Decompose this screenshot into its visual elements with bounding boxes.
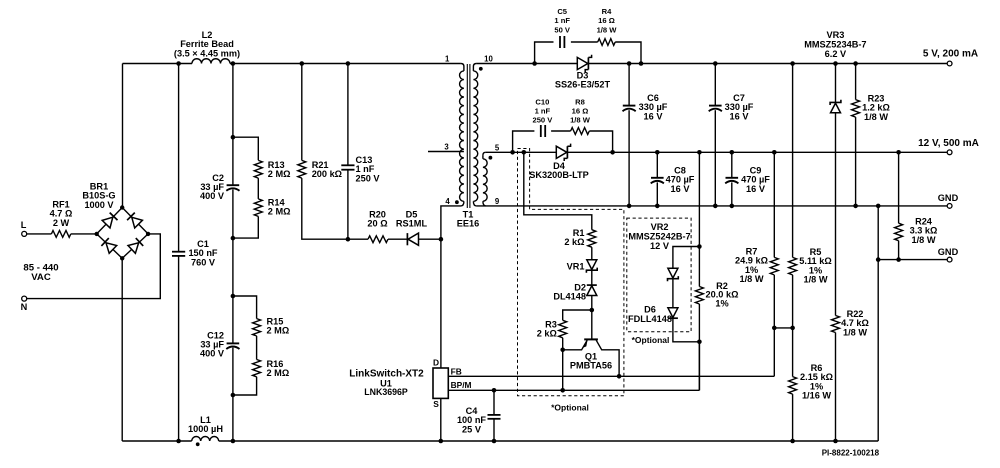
- resistor R7: [773, 152, 775, 257]
- capacitor C6: [628, 64, 630, 106]
- transistor Q1 PMBTA56: [584, 338, 598, 340]
- wire: transformer pin4 to drain node: [441, 206, 459, 239]
- svg-text:1/16 W: 1/16 W: [802, 391, 831, 401]
- terminal 12V: [947, 150, 952, 155]
- diode D3: [577, 57, 588, 69]
- wire R1 to VR1: [591, 247, 593, 260]
- wire D5 to drain node: [419, 238, 441, 240]
- svg-text:1%: 1%: [715, 298, 728, 308]
- svg-text:10: 10: [484, 55, 493, 64]
- svg-text:S: S: [433, 399, 439, 409]
- wire D2 to base node: [591, 296, 593, 340]
- resistor R8: [571, 128, 590, 135]
- resistor R6: [789, 377, 797, 395]
- svg-text:2 kΩ: 2 kΩ: [564, 237, 584, 247]
- svg-text:GND: GND: [938, 247, 959, 257]
- transformer T1 primary winding: [461, 64, 464, 67]
- wire: 5V output rail: [476, 63, 577, 65]
- wire: N to bridge: [27, 234, 161, 299]
- wire: bottom rail: [122, 440, 192, 442]
- svg-text:1/8 W: 1/8 W: [597, 25, 618, 34]
- wire VR2 to D6: [672, 279, 674, 308]
- svg-text:EE16: EE16: [457, 219, 479, 229]
- resistor R16: [256, 336, 258, 360]
- svg-text:VAC: VAC: [31, 272, 51, 283]
- svg-text:L: L: [21, 220, 27, 230]
- wire VR1 to D2: [591, 271, 593, 285]
- svg-text:VR1: VR1: [567, 262, 585, 272]
- svg-text:5: 5: [495, 143, 500, 152]
- resistor R23: [855, 64, 857, 100]
- svg-text:1/8 W: 1/8 W: [804, 275, 828, 285]
- svg-text:25 V: 25 V: [462, 424, 482, 434]
- svg-text:FB: FB: [451, 366, 462, 376]
- svg-text:FDLL4148: FDLL4148: [628, 314, 672, 324]
- terminal N: [22, 296, 27, 301]
- svg-text:250 V: 250 V: [532, 116, 553, 125]
- inductor L1: [192, 437, 219, 442]
- svg-text:PMBTA56: PMBTA56: [570, 360, 612, 370]
- svg-text:2 W: 2 W: [53, 218, 70, 228]
- wire: bridge- to bottom rail: [121, 258, 123, 441]
- svg-text:1: 1: [445, 55, 450, 64]
- svg-text:C5: C5: [557, 7, 567, 16]
- svg-text:R4: R4: [602, 7, 612, 16]
- svg-text:1 nF: 1 nF: [554, 16, 570, 25]
- resistor RF1: [51, 231, 70, 238]
- svg-text:5 V, 200 mA: 5 V, 200 mA: [923, 48, 978, 59]
- capacitor C8: [656, 152, 658, 178]
- svg-text:12 V, 500 mA: 12 V, 500 mA: [918, 138, 979, 149]
- transformer T1 pin3 stub: [428, 151, 464, 153]
- svg-text:20 Ω: 20 Ω: [367, 219, 387, 229]
- diode D2: [587, 284, 597, 286]
- resistor R22: [832, 316, 840, 333]
- snubber C5 R4 loop: [535, 42, 554, 64]
- svg-text:1/8 W: 1/8 W: [864, 112, 888, 122]
- resistor R24: [898, 152, 900, 223]
- svg-text:250 V: 250 V: [356, 173, 381, 183]
- svg-text:N: N: [21, 302, 28, 312]
- svg-text:400 V: 400 V: [200, 191, 225, 201]
- capacitor C9: [731, 152, 733, 178]
- svg-text:BP/M: BP/M: [451, 380, 472, 390]
- wire: L to RF1: [27, 233, 52, 235]
- resistor R21: [301, 64, 303, 161]
- wire: GND rail from pin 9: [476, 205, 947, 207]
- resistor R5: [792, 64, 794, 258]
- svg-text:RS1ML: RS1ML: [396, 219, 428, 229]
- svg-text:760 V: 760 V: [191, 257, 216, 267]
- svg-text:1/8 W: 1/8 W: [912, 235, 936, 245]
- svg-text:GND: GND: [938, 193, 959, 203]
- svg-text:R8: R8: [575, 97, 585, 106]
- transformer T1 core: [466, 64, 468, 208]
- snubber C10 R8 loop: [513, 131, 535, 152]
- wire: GND to GND2 and bottom rail: [877, 206, 879, 441]
- transformer T1 secondary winding 5-9: [483, 152, 486, 155]
- zener VR1: [587, 260, 597, 270]
- resistor R20: [348, 238, 368, 240]
- svg-text:SK3200B-LTP: SK3200B-LTP: [529, 170, 589, 180]
- svg-text:16 V: 16 V: [746, 184, 766, 194]
- svg-text:12 V: 12 V: [650, 241, 670, 251]
- svg-text:16 Ω: 16 Ω: [598, 16, 615, 25]
- svg-text:16 Ω: 16 Ω: [572, 107, 589, 116]
- wire: top input rail: [123, 63, 193, 65]
- wire: 12V rail: [486, 151, 557, 153]
- svg-text:16 V: 16 V: [671, 184, 691, 194]
- wire: U1 source to bottom rail: [440, 398, 442, 441]
- capacitor C4: [493, 390, 495, 415]
- svg-text:2 kΩ: 2 kΩ: [537, 329, 557, 339]
- resistor R2: [698, 152, 700, 286]
- svg-text:3: 3: [444, 143, 449, 152]
- svg-text:16 V: 16 V: [730, 111, 750, 121]
- svg-text:2 MΩ: 2 MΩ: [268, 207, 291, 217]
- wire D6 to R2 bottom node: [673, 318, 700, 342]
- resistor R4: [598, 39, 616, 46]
- zener VR2: [673, 247, 700, 269]
- svg-text:16 V: 16 V: [644, 111, 664, 121]
- terminal 5V: [947, 61, 952, 66]
- IC U1 LinkSwitch-XT2: [433, 368, 448, 398]
- wire: R7-R5 node link: [774, 327, 792, 329]
- svg-text:6.2 V: 6.2 V: [825, 49, 847, 59]
- zener VR3: [835, 64, 837, 103]
- svg-text:1/8 W: 1/8 W: [740, 274, 764, 284]
- transformer T1 secondary winding 10-9: [473, 64, 476, 67]
- svg-text:LNK3696P: LNK3696P: [364, 387, 408, 397]
- wire R20 to D5: [388, 238, 407, 240]
- resistor R15: [233, 296, 257, 319]
- svg-text:2 MΩ: 2 MΩ: [267, 368, 290, 378]
- wire: BP/M line: [448, 389, 699, 391]
- svg-text:C10: C10: [535, 97, 549, 106]
- svg-text:D: D: [433, 358, 439, 368]
- capacitor C7: [714, 64, 716, 106]
- svg-text:*Optional: *Optional: [632, 335, 670, 345]
- svg-text:2 MΩ: 2 MΩ: [267, 326, 290, 336]
- svg-text:1/8 W: 1/8 W: [843, 327, 867, 337]
- inductor L2 ferrite bead: [192, 59, 230, 64]
- optional box around VR2 D6: [627, 218, 691, 332]
- svg-text:PI-8822-100218: PI-8822-100218: [822, 448, 880, 457]
- svg-text:(3.5 × 4.45 mm): (3.5 × 4.45 mm): [174, 48, 240, 58]
- svg-text:4: 4: [445, 197, 450, 206]
- diode D4: [556, 146, 567, 158]
- diode D5: [406, 233, 408, 245]
- svg-text:1/8 W: 1/8 W: [570, 116, 591, 125]
- transformer phase dots: [455, 200, 459, 204]
- capacitor C5: [559, 36, 561, 48]
- svg-text:*Optional: *Optional: [551, 403, 589, 413]
- wire: FB line: [448, 375, 774, 377]
- resistor R3: [563, 310, 592, 320]
- resistor R13: [233, 137, 258, 160]
- wire: GND2 line: [878, 259, 947, 261]
- svg-text:2 MΩ: 2 MΩ: [268, 169, 291, 179]
- wire: FB sense tap from 12V rail: [524, 152, 592, 229]
- capacitor C10: [540, 125, 542, 137]
- svg-text:1000 µH: 1000 µH: [188, 424, 223, 434]
- svg-text:9: 9: [495, 197, 500, 206]
- wire: drain node to U1 drain: [440, 239, 442, 368]
- svg-text:1000 V: 1000 V: [84, 200, 114, 210]
- svg-text:DL4148: DL4148: [553, 291, 586, 301]
- resistor R14: [257, 178, 259, 199]
- svg-text:SS26-E3/52T: SS26-E3/52T: [555, 80, 611, 90]
- svg-text:50 V: 50 V: [554, 25, 571, 34]
- wire: RF1 to bridge: [71, 233, 97, 235]
- wire: bridge+ to top rail: [122, 64, 124, 208]
- bridge rectifier BR1: [97, 208, 148, 259]
- capacitor C1: [178, 64, 180, 252]
- svg-text:1 nF: 1 nF: [535, 107, 551, 116]
- capacitor C13: [347, 64, 349, 166]
- svg-text:200 kΩ: 200 kΩ: [312, 169, 342, 179]
- optional box around Q1 network: [518, 149, 624, 396]
- capacitor C2 + C12 stack: [232, 64, 234, 186]
- terminal GND upper: [947, 204, 952, 209]
- svg-text:400 V: 400 V: [200, 349, 225, 359]
- terminal L: [22, 231, 27, 236]
- resistor R1: [588, 230, 596, 248]
- diode D6: [668, 308, 678, 318]
- terminal GND lower: [947, 257, 952, 262]
